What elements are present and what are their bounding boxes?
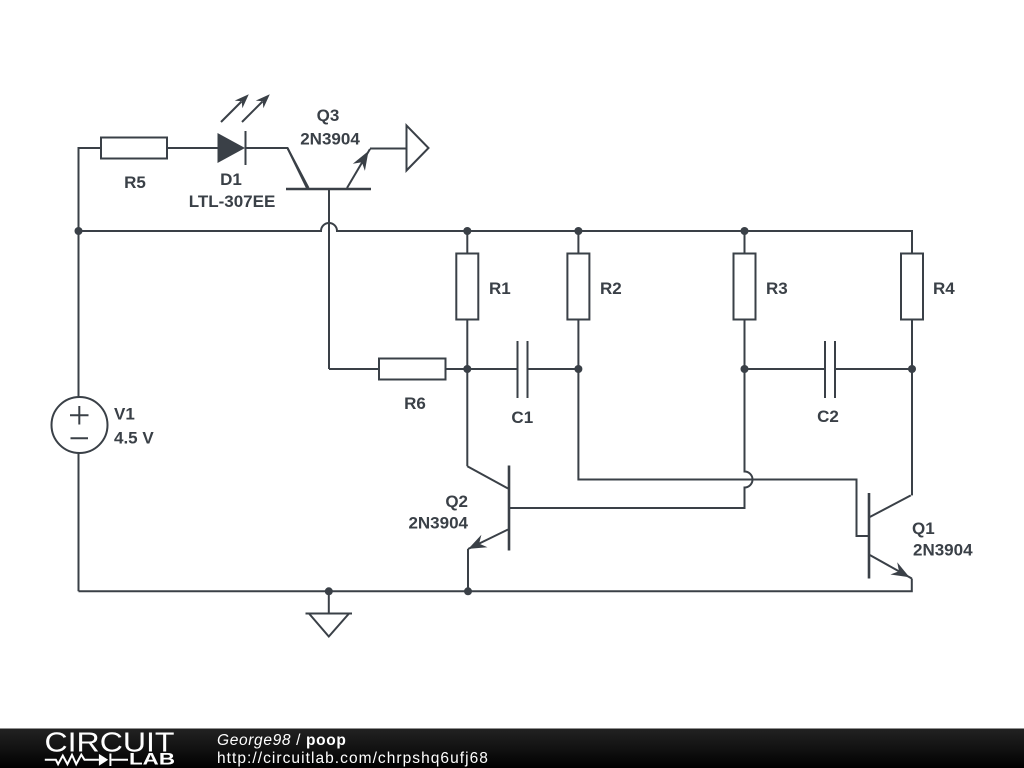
resistor R5 xyxy=(101,138,167,159)
svg-text:D1: D1 xyxy=(220,170,242,189)
footer title George98 / poop xyxy=(217,732,347,749)
label Q3 value 2N3904 xyxy=(300,130,360,149)
label R3 xyxy=(766,279,788,298)
resistor R2 xyxy=(567,254,589,320)
label R1 xyxy=(489,279,511,298)
label D1 value LTL-307EE xyxy=(189,192,276,211)
resistor R4 xyxy=(901,254,923,320)
footer bar xyxy=(0,729,1024,768)
wire left rail top (V+ rail) xyxy=(79,148,102,397)
wire top bus with hop xyxy=(79,223,913,254)
svg-text:C1: C1 xyxy=(511,408,533,427)
wire R3 node to Q2 base with hop xyxy=(509,369,753,508)
svg-text:LAB: LAB xyxy=(129,750,175,768)
wire R6 to C1 xyxy=(446,368,518,370)
label C2 xyxy=(817,407,839,426)
svg-text:R6: R6 xyxy=(404,394,426,413)
wire R3 top lead xyxy=(744,231,746,254)
wire C1 to R2 node xyxy=(528,368,578,370)
wire Q2 emitter to ground rail xyxy=(467,549,469,591)
transistor Q2 xyxy=(467,466,509,551)
wire R3 node to C2 xyxy=(745,368,825,370)
label R2 xyxy=(600,279,622,298)
node bus-R1 xyxy=(463,227,471,235)
resistor R1 xyxy=(456,254,478,320)
label C1 xyxy=(511,408,533,427)
node bus-R3 xyxy=(741,227,749,235)
node Q2 emitter xyxy=(464,587,472,595)
svg-text:Q1: Q1 xyxy=(912,519,935,538)
label R4 xyxy=(933,279,955,298)
label V1 value 4.5 V xyxy=(114,429,154,448)
svg-text:R5: R5 xyxy=(124,173,146,192)
wire R5 to D1 xyxy=(167,147,218,149)
svg-text:R4: R4 xyxy=(933,279,955,298)
wire Q3 base stub down xyxy=(328,189,330,369)
wire R1 bottom lead xyxy=(466,320,468,370)
diode D1 (LED) xyxy=(218,94,270,165)
node R4-C2 xyxy=(908,365,916,373)
capacitor C2 xyxy=(825,341,835,398)
svg-text:4.5 V: 4.5 V xyxy=(114,429,154,448)
label V1 xyxy=(114,405,135,424)
svg-text:R2: R2 xyxy=(600,279,622,298)
node bus-R2 xyxy=(574,227,582,235)
wire D1 to Q3 base xyxy=(246,148,309,188)
label Q1 value 2N3904 xyxy=(913,541,973,560)
svg-text:R1: R1 xyxy=(489,279,511,298)
voltage source V1 xyxy=(52,397,108,453)
wire R4 bottom lead xyxy=(911,320,913,370)
wire R2 top lead xyxy=(577,231,579,254)
svg-text:LTL-307EE: LTL-307EE xyxy=(189,192,276,211)
svg-text:2N3904: 2N3904 xyxy=(913,541,973,560)
wire Q3 stub to R6 xyxy=(329,368,379,370)
svg-text:2N3904: 2N3904 xyxy=(300,130,360,149)
wire left rail bottom xyxy=(78,453,80,591)
svg-text:V1: V1 xyxy=(114,405,135,424)
wire R4 node to Q1 collector xyxy=(911,369,913,495)
label D1 xyxy=(220,170,242,189)
resistor R3 xyxy=(734,254,756,320)
label R6 xyxy=(404,394,426,413)
wire R2 bottom lead xyxy=(577,320,579,370)
wire bottom ground rail xyxy=(79,579,912,592)
wire R1 top lead xyxy=(466,231,468,254)
node ground tap xyxy=(325,587,333,595)
node R2-C1 xyxy=(574,365,582,373)
wire C2 to R4 node xyxy=(836,368,913,370)
label R5 xyxy=(124,173,146,192)
ground xyxy=(306,591,353,636)
label Q2 xyxy=(445,492,468,511)
node R1-R6-C1 xyxy=(463,365,471,373)
CircuitLab logo xyxy=(45,727,176,768)
label Q1 xyxy=(912,519,935,538)
node R3-C2 xyxy=(741,365,749,373)
wire R2 node to Q1 base xyxy=(578,369,869,536)
output port triangle xyxy=(407,126,429,171)
svg-text:2N3904: 2N3904 xyxy=(408,514,468,533)
svg-text:Q3: Q3 xyxy=(317,106,340,125)
footer url xyxy=(217,750,489,767)
label Q3 xyxy=(317,106,340,125)
wire R1 node to Q2 collector xyxy=(466,369,468,466)
svg-text:George98 / poop: George98 / poop xyxy=(217,732,347,749)
svg-text:C2: C2 xyxy=(817,407,839,426)
node bus-left xyxy=(75,227,83,235)
svg-text:http://circuitlab.com/chrpshq6: http://circuitlab.com/chrpshq6ufj68 xyxy=(217,750,489,767)
transistor Q3 xyxy=(286,148,371,189)
resistor R6 xyxy=(379,359,446,380)
label Q2 value 2N3904 xyxy=(408,514,468,533)
transistor Q1 xyxy=(869,493,912,579)
capacitor C1 xyxy=(518,341,528,398)
wire R3 bottom lead xyxy=(744,320,746,370)
svg-text:Q2: Q2 xyxy=(445,492,468,511)
wire Q3 emitter to output xyxy=(370,148,407,150)
svg-text:R3: R3 xyxy=(766,279,788,298)
